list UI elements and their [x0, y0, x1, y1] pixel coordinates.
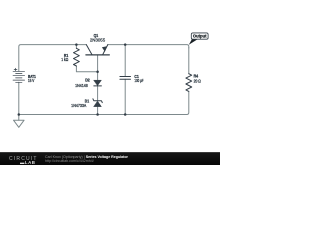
wire C1 bottom lead [124, 79, 126, 114]
wire D1 anode down to bottom rail [97, 107, 99, 115]
svg-text:2N3055: 2N3055 [90, 38, 106, 43]
battery BAT1 [13, 71, 25, 82]
resistor R1 [74, 48, 80, 66]
svg-text:100 µF: 100 µF [134, 78, 144, 83]
junction node base [96, 71, 99, 74]
capacitor C1 [120, 77, 131, 80]
wire R1 bottom lead to base node [76, 66, 97, 72]
wire C1 top lead [124, 45, 126, 77]
wire top-right rail from Q1 emitter to output corner [108, 45, 189, 48]
transistor Q1 [86, 45, 109, 55]
CircuitLab logo [9, 157, 38, 162]
svg-text:1N4733A: 1N4733A [71, 103, 87, 108]
junction node C1 bottom [124, 113, 127, 116]
footer bar [0, 152, 220, 165]
junction node D1 bottom [96, 113, 99, 116]
svg-text:R4: R4 [194, 74, 199, 78]
svg-text:D2: D2 [85, 78, 89, 82]
wire top-left rail from battery top to Q1 collector [19, 45, 87, 72]
wire battery bottom lead [18, 82, 20, 114]
wire Q1 base down to base node [97, 55, 99, 72]
svg-text:Output: Output [193, 34, 207, 39]
output flag [189, 33, 208, 45]
svg-text:15 V: 15 V [28, 79, 35, 84]
resistor R4 [186, 74, 192, 92]
svg-text:1N4148: 1N4148 [75, 84, 88, 88]
wire R4 top lead [188, 48, 190, 74]
wire base node down to D2 anode [97, 72, 99, 80]
junction node battery bottom [18, 113, 21, 116]
wire D2 cathode to D1 cathode [97, 86, 99, 100]
ground [14, 115, 25, 128]
wire R1 top lead [75, 45, 77, 49]
junction node R1 top [75, 43, 78, 46]
footer credit line [45, 156, 128, 160]
battery plus sign [14, 68, 17, 71]
wire R4 bottom lead [186, 91, 189, 114]
wire bottom rail [19, 114, 187, 116]
junction node C1 top [124, 43, 127, 46]
footer url line [45, 160, 94, 164]
zener diode D1 [93, 99, 102, 107]
svg-text:20 Ω: 20 Ω [194, 79, 201, 83]
svg-text:1 kΩ: 1 kΩ [61, 58, 68, 62]
diode D2 [94, 80, 102, 86]
